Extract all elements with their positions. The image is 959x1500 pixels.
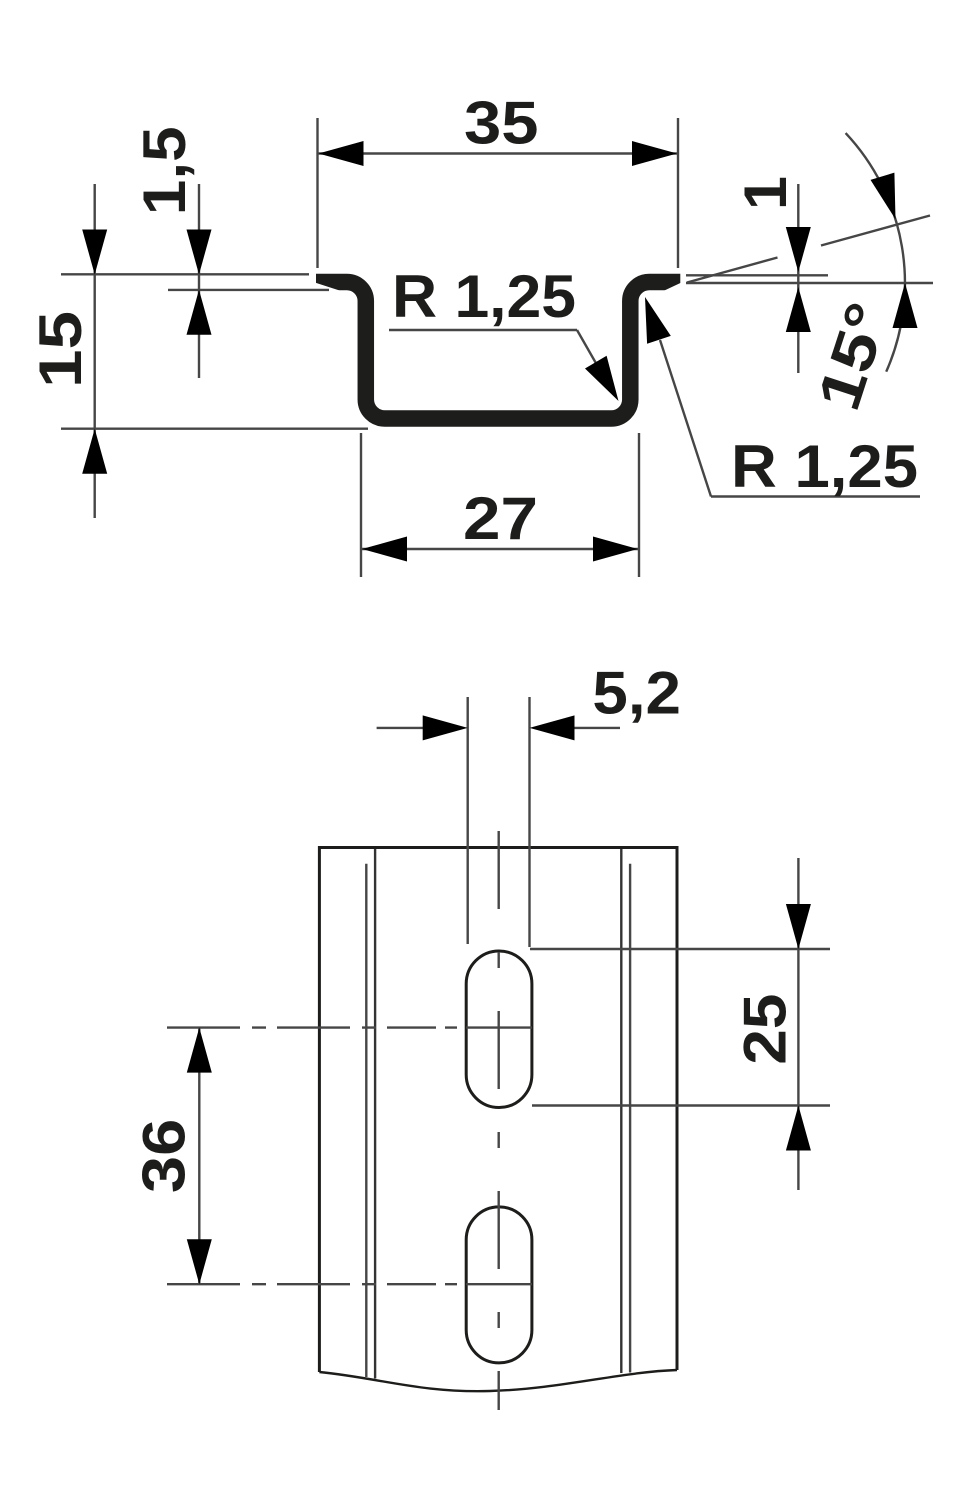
svg-text:R 1,25: R 1,25 [392,263,576,330]
leader R1,25 top diagonal [577,330,613,393]
dimension 15 line [93,184,95,518]
lip bottom reference line [686,282,933,284]
rail cross-section profile [316,282,680,419]
bend line right inner [620,849,622,1373]
dimension 5,2 arrow right [530,715,575,740]
dimension 1,5 arrow top [187,230,212,275]
dimension 1 line [797,184,799,373]
lower slot [466,1207,532,1363]
right flange tip bevel [662,282,683,292]
bend line left inner [374,849,376,1379]
angle dimension arc [846,133,905,372]
leader R1,25 top shelf [389,329,577,331]
left flange tip bevel [314,282,343,291]
bend line left outer [365,864,367,1377]
dimension 27 arrow left [362,537,407,562]
top surface reference line [61,273,309,275]
svg-text:27: 27 [463,485,538,552]
upper slot [466,951,532,1108]
break line [319,1370,677,1391]
flange underside reference line [168,289,329,291]
dimension 36 arrow bottom [187,1239,212,1284]
dimension 27 extension line left [360,433,362,577]
slope line segment 2 [821,216,930,246]
bend line right outer [629,864,631,1373]
dimension 35 line [318,152,679,154]
dimension 15 arrow bottom [82,429,107,474]
slope line segment 1 [687,258,778,283]
dimension 35 arrow left [319,141,364,166]
dimension 36 arrow top [187,1028,212,1073]
lip top reference line [686,274,828,276]
dimension 1 arrow bottom [786,287,811,332]
svg-text:1,5: 1,5 [131,126,198,215]
bottom reference line [61,428,368,430]
dimension 27 arrow right [593,537,638,562]
dimension 25 arrow bottom [786,1106,811,1151]
svg-text:25: 25 [731,994,798,1065]
dimension 5,2 arrow left [423,715,468,740]
dimension 1,5 line [198,184,200,378]
dimension 1 arrow top [786,227,811,272]
svg-text:R 1,25: R 1,25 [731,433,918,500]
dimension 25 arrow top [786,904,811,949]
leader R1,25 bottom shelf [711,495,920,497]
dimension 15 arrow top [82,230,107,275]
svg-text:1: 1 [732,176,799,210]
lower slot horizontal centerline [167,1283,532,1285]
dimension 36 line [198,1028,200,1285]
angle arc arrow top [871,173,896,220]
dimension 35 extension line right [677,118,679,268]
dimension 35 arrow right [632,141,677,166]
dimension 25 line [797,858,799,1190]
upper slot horizontal centerline [167,1026,532,1028]
dimension 27 extension line right [638,433,640,577]
angle arc arrow bottom [893,283,918,328]
vertical centerline [498,831,500,1410]
dimension 25 extension top [530,948,830,950]
dimension 5,2 tail right [573,727,620,729]
dimension 5,2 tail left [377,727,424,729]
svg-text:5,2: 5,2 [592,660,681,727]
dimension 1,5 arrow bottom [187,290,212,335]
leader R1,25 top arrow [585,356,619,401]
dimension 5,2 extension left [467,697,469,944]
leader R1,25 bottom diagonal [660,340,711,497]
svg-text:35: 35 [464,89,539,156]
dimension 25 extension bottom [532,1104,830,1106]
svg-text:15: 15 [27,311,94,388]
leader R1,25 bottom arrow [645,297,671,344]
rail front outline [319,848,677,1373]
dimension 27 line [361,548,639,550]
svg-text:36: 36 [131,1119,198,1193]
dimension 5,2 extension right [528,697,530,947]
dimension 35 extension line left [316,118,318,268]
